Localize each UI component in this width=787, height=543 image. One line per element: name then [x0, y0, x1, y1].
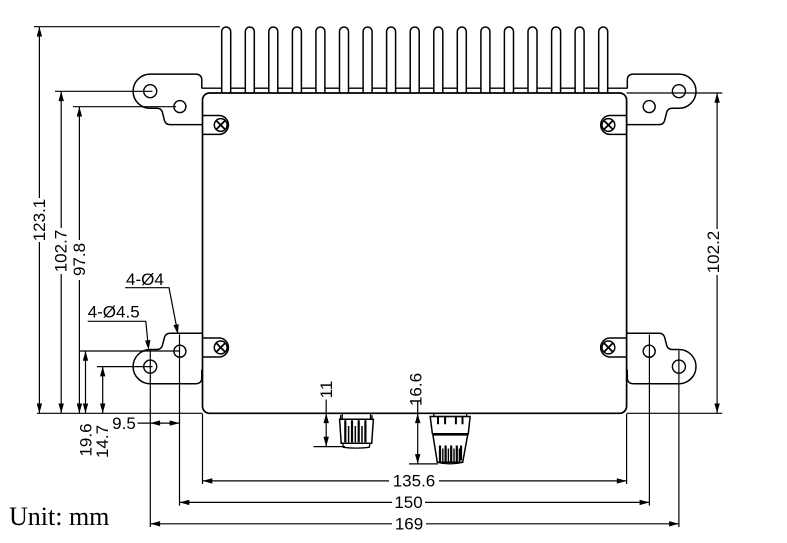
svg-text:16.6: 16.6 — [407, 373, 426, 406]
mounting bracket tab bottom-left — [133, 333, 202, 384]
chassis body outline — [203, 93, 627, 413]
dimension 150 bottom — [180, 493, 650, 512]
dimension 16.6 connector right — [407, 373, 439, 464]
dimension 97.8 left — [70, 107, 176, 414]
svg-text:97.8: 97.8 — [70, 243, 89, 276]
svg-text:169: 169 — [395, 515, 423, 534]
shared bottom extension line left — [37, 412, 203, 414]
label 4-d4 with leader — [125, 270, 180, 335]
dimension 102.2 right — [627, 93, 723, 413]
svg-text:150: 150 — [394, 493, 422, 512]
dimension 102.7 left — [52, 91, 153, 413]
screw boss tab top-left — [203, 116, 229, 135]
dimension 123.1 left — [30, 27, 220, 414]
svg-text:135.6: 135.6 — [393, 472, 436, 491]
cable gland connector right — [430, 413, 470, 463]
svg-text:11: 11 — [317, 381, 336, 399]
mounting bracket tab bottom-right — [627, 333, 696, 384]
mounting bracket tab top-right — [627, 74, 696, 125]
heatsink fins — [222, 27, 608, 93]
screw boss tab bottom-right — [601, 338, 627, 357]
heatsink fin base webs — [202, 87, 628, 89]
mounting bracket tab top-left — [133, 74, 202, 125]
svg-text:4-Ø4: 4-Ø4 — [126, 270, 164, 289]
svg-text:9.5: 9.5 — [112, 414, 136, 433]
svg-text:123.1: 123.1 — [30, 199, 49, 242]
svg-text:102.2: 102.2 — [704, 231, 723, 274]
dimension 14.7 left bottom — [93, 367, 153, 458]
dimension 19.6 left bottom — [76, 351, 179, 457]
dimension 11 connector left — [314, 381, 346, 447]
screw boss tab top-right — [601, 116, 627, 135]
svg-text:4-Ø4.5: 4-Ø4.5 — [88, 303, 140, 322]
extension lines for bottom dimensions — [150, 335, 679, 528]
dimension 9.5 — [112, 414, 179, 433]
dimension 169 bottom — [150, 515, 679, 534]
svg-text:14.7: 14.7 — [93, 425, 112, 458]
svg-text:102.7: 102.7 — [52, 230, 71, 273]
cable gland connector left — [340, 413, 374, 448]
svg-text:Unit: mm: Unit: mm — [9, 502, 109, 531]
label 4-d4.5 with leader — [88, 303, 152, 351]
screw boss tab bottom-left — [203, 338, 229, 357]
dimension 135.6 bottom — [203, 472, 627, 491]
